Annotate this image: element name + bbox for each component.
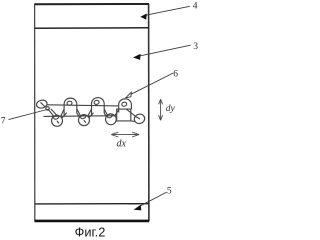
svg-text:3: 3 bbox=[193, 42, 198, 52]
dx dimension arrow bbox=[111, 132, 139, 137]
leader line to 4 bbox=[145, 6, 190, 15]
open arrowhead of 6 bbox=[126, 92, 132, 98]
dy dimension arrow bbox=[159, 99, 163, 120]
yarn hook after E1 bbox=[46, 107, 49, 110]
svg-text:Фиг.2: Фиг.2 bbox=[75, 225, 106, 240]
needle loop arch A1 bbox=[64, 98, 77, 115]
svg-text:5: 5 bbox=[167, 186, 172, 196]
legs C3 to A3 bbox=[115, 110, 119, 116]
inner ellipse of C3 bbox=[107, 113, 113, 118]
yarn end ellipse E2 bbox=[133, 113, 145, 125]
knitted loop chain bbox=[36, 98, 146, 127]
leader line to 3 bbox=[139, 45, 191, 56]
filled arrowhead of 3 bbox=[133, 54, 141, 60]
svg-text:dy: dy bbox=[166, 104, 176, 114]
filled arrowhead of 4 bbox=[140, 14, 147, 20]
link square to E2 bbox=[131, 120, 135, 123]
bottom band divider line bbox=[35, 203, 149, 205]
inner stroke of C1 bbox=[57, 121, 59, 124]
sinker loop circle C2 bbox=[79, 115, 90, 126]
leader line from 7 into chain bbox=[9, 109, 50, 120]
legs A1 to C2 bbox=[77, 109, 81, 117]
diagonal A3 to E2 bbox=[126, 109, 135, 116]
svg-text:4: 4 bbox=[193, 1, 198, 11]
inner ellipse of C1 bbox=[53, 114, 59, 119]
legs C1 to A1 bbox=[61, 109, 67, 118]
filled triangle in bottom band bbox=[134, 205, 142, 211]
leader line to 6 bbox=[131, 73, 173, 94]
needle loop arch A3 bbox=[119, 99, 132, 113]
inner ellipse of A1 bbox=[67, 101, 73, 106]
top band divider line bbox=[35, 27, 149, 29]
svg-text:7: 7 bbox=[1, 117, 6, 127]
sinker loop circle C1 bbox=[52, 115, 63, 126]
inner ellipse of C2 bbox=[80, 114, 86, 119]
square under arch A3 bbox=[117, 109, 131, 121]
legs E1 to C1 bbox=[49, 109, 57, 117]
inner ellipse of A2 bbox=[94, 100, 100, 105]
legs A2 to C3 bbox=[104, 109, 108, 117]
fabric outline rectangle bbox=[35, 4, 149, 221]
needle loop arch A2 bbox=[92, 98, 105, 116]
lower yarn line bbox=[44, 115, 117, 118]
svg-text:dx: dx bbox=[117, 138, 127, 149]
inner stroke of C2 bbox=[84, 120, 86, 123]
legs C2 to A2 bbox=[88, 109, 94, 118]
sinker loop circle C3 bbox=[106, 114, 117, 125]
leader line to 5 bbox=[140, 192, 167, 206]
yarn end ellipse E1 bbox=[36, 99, 48, 109]
inner ellipse of A3 bbox=[121, 102, 127, 107]
upper yarn line bbox=[47, 105, 119, 106]
svg-text:6: 6 bbox=[173, 70, 178, 80]
inner stroke of E2 bbox=[136, 117, 140, 120]
inner stroke of E1 bbox=[41, 102, 45, 106]
